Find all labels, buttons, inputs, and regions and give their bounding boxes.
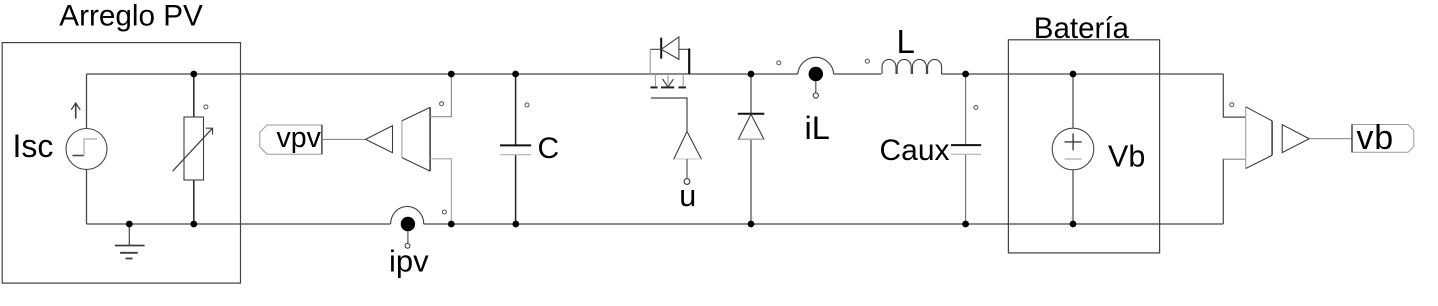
voltage sensor vpv (trapezoid) xyxy=(402,107,430,171)
vpv sensor pin marker xyxy=(440,102,444,106)
svg-text:Vb: Vb xyxy=(1108,139,1145,173)
mosfet gate bar and lead xyxy=(651,98,687,132)
ground xyxy=(115,224,145,259)
current sensor iL xyxy=(798,57,834,98)
svg-text:Batería: Batería xyxy=(1034,12,1130,45)
ipv pin marker xyxy=(442,210,446,214)
wire Isc top xyxy=(86,74,88,129)
node junction vpv top xyxy=(448,71,455,78)
wire vpv tag to probe xyxy=(322,138,366,140)
node junction vpv bottom xyxy=(448,221,455,228)
wire vpv sensor + pin xyxy=(430,74,451,117)
probe triangle vpv xyxy=(366,126,393,153)
capacitor Caux xyxy=(951,145,981,154)
box Bateria xyxy=(1008,40,1159,253)
mosfet body bar right leg (thick) xyxy=(688,49,690,75)
wire capacitor C bottom xyxy=(515,155,517,224)
mosfet bulk arrow xyxy=(667,74,669,84)
wire varistor top xyxy=(193,74,195,117)
wire top rail segment 3 xyxy=(941,73,1223,75)
current source Isc xyxy=(66,103,107,170)
wire Caux bottom xyxy=(965,154,967,224)
node junction Caux top xyxy=(962,71,969,78)
wire Vb top xyxy=(1072,74,1074,128)
wire Caux top xyxy=(965,74,967,145)
node junction Caux bottom xyxy=(962,221,969,228)
L pin marker xyxy=(865,59,869,63)
voltage source Vb xyxy=(1052,128,1094,170)
box Arreglo PV xyxy=(2,43,240,284)
mosfet source stub xyxy=(682,74,684,86)
wire varistor bottom xyxy=(193,180,195,224)
inductor L xyxy=(882,59,942,74)
svg-text:ipv: ipv xyxy=(389,244,429,279)
voltage sensor vb (trapezoid) xyxy=(1246,107,1272,169)
wire top rail segment 2 xyxy=(834,73,882,75)
vb sensor pin marker xyxy=(1230,103,1234,107)
wire bottom rail segment 1 xyxy=(87,223,391,225)
svg-text:Caux: Caux xyxy=(880,134,950,167)
wire Isc bottom xyxy=(86,170,88,225)
diode left leg xyxy=(649,49,651,74)
svg-text:vpv: vpv xyxy=(277,122,322,154)
svg-text:C: C xyxy=(538,132,560,165)
wire vb sensor + pin xyxy=(1223,74,1245,117)
svg-text:Isc: Isc xyxy=(13,128,54,164)
svg-text:u: u xyxy=(679,179,696,213)
mosfet channel bars xyxy=(651,86,658,88)
svg-text:vb: vb xyxy=(1357,119,1395,157)
svg-text:Arreglo PV: Arreglo PV xyxy=(59,0,203,33)
mosfet Q1 with antiparallel diode xyxy=(650,37,689,132)
wire vb sensor - pin xyxy=(1223,159,1245,224)
node junction varistor top xyxy=(190,71,197,78)
node junction Vb top xyxy=(1070,71,1077,78)
diode cathode bar xyxy=(660,38,662,59)
wire vpv sensor - pin xyxy=(430,159,451,224)
node junction D top xyxy=(748,71,755,78)
svg-text:iL: iL xyxy=(805,110,830,146)
node junction C bottom xyxy=(512,221,519,228)
diode D xyxy=(738,114,765,140)
svg-text:L: L xyxy=(897,23,915,60)
wire capacitor C top xyxy=(515,74,517,145)
gate driver triangle xyxy=(674,132,702,185)
probe triangle vb xyxy=(1282,125,1309,153)
C pin marker xyxy=(525,103,529,107)
net tag vb xyxy=(1352,119,1414,157)
wire bottom rail segment 2 xyxy=(424,223,1224,225)
diode triangle xyxy=(661,37,679,60)
iL pin marker xyxy=(777,61,781,65)
varistor (PV nonlinear resistor) xyxy=(173,117,213,180)
wire Vb bottom xyxy=(1072,170,1074,224)
wire diode D bottom xyxy=(750,139,752,224)
node junction C top xyxy=(512,71,519,78)
net tag vpv xyxy=(260,122,322,154)
varistor pin marker xyxy=(204,105,208,109)
diode horizontal leads xyxy=(650,48,661,50)
node junction Vb bottom xyxy=(1070,221,1077,228)
capacitor C xyxy=(500,145,531,154)
node junction D bottom xyxy=(748,221,755,228)
wire vb probe to tag xyxy=(1309,138,1352,140)
wire diode D top xyxy=(750,74,752,114)
current sensor ipv xyxy=(391,206,424,248)
node junction ground xyxy=(126,221,133,228)
Caux pin marker xyxy=(974,106,978,110)
mosfet drain stub xyxy=(654,74,656,86)
node junction varistor bottom xyxy=(190,221,197,228)
wire top rail segment 1 xyxy=(87,73,798,75)
